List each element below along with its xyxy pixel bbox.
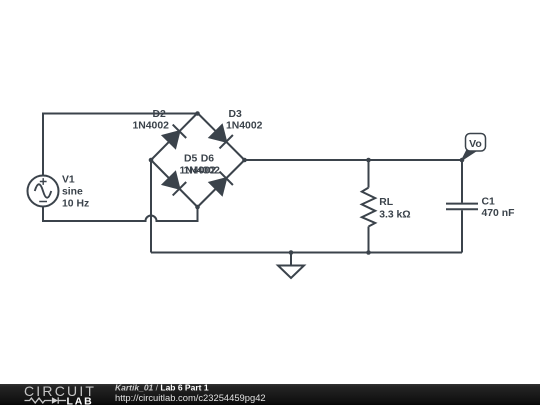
svg-text:D5: D5 <box>184 154 198 165</box>
label V1 <box>62 175 89 210</box>
diode D3 (bridge top-right arm) <box>198 113 245 160</box>
wire output rail from bridge right node to Vo node <box>245 159 463 161</box>
wire Vo node down through C1 to ground rail <box>461 160 463 253</box>
wire top rail from V1 up and right to bridge top node <box>43 114 198 176</box>
label D5 and D6 <box>180 154 221 177</box>
junction node: bridge bottom <box>195 205 200 210</box>
svg-text:1N4002: 1N4002 <box>133 121 170 132</box>
junction node: bridge right <box>242 158 247 163</box>
wire bottom ground rail <box>151 252 462 254</box>
label D2 <box>133 109 170 132</box>
svg-text:D6: D6 <box>201 154 215 165</box>
label RL <box>379 197 410 220</box>
svg-text:1N4002: 1N4002 <box>226 121 263 132</box>
svg-text:D3: D3 <box>229 109 243 120</box>
junction node: Vo <box>460 158 465 163</box>
diode D6 (bridge bottom-right arm) <box>198 160 245 207</box>
svg-text:V1: V1 <box>62 175 75 186</box>
svg-text:C1: C1 <box>482 197 496 208</box>
diode D5 (bridge bottom-left arm) <box>151 160 198 207</box>
junction node: bridge top <box>195 111 200 116</box>
svg-text:10 Hz: 10 Hz <box>62 198 89 209</box>
svg-text:http://circuitlab.com/c2325445: http://circuitlab.com/c23254459pg42 <box>115 392 266 403</box>
capacitor C1 plates <box>446 204 478 210</box>
Vo net flag <box>462 134 486 161</box>
footer bar <box>0 384 540 405</box>
wire V1 bottom rail with hop over left branch, to bridge bottom node <box>43 207 198 222</box>
svg-text:D2: D2 <box>153 109 167 120</box>
diode D2 (bridge top-left arm) <box>151 113 198 160</box>
svg-text:Vo: Vo <box>469 138 482 150</box>
wire RL branch leads <box>368 160 370 253</box>
svg-text:LAB: LAB <box>67 396 94 405</box>
wire bridge left node down to ground rail <box>150 160 152 253</box>
ground symbol <box>278 253 304 279</box>
svg-text:RL: RL <box>379 197 394 208</box>
junction node: bridge left <box>149 158 154 163</box>
svg-text:470 nF: 470 nF <box>482 208 515 219</box>
junction node: RL bottom <box>366 250 371 255</box>
svg-text:1N4002: 1N4002 <box>184 165 221 176</box>
svg-text:3.3 kΩ: 3.3 kΩ <box>379 209 410 220</box>
label C1 <box>482 197 515 220</box>
voltage source V1 <box>28 176 59 207</box>
CircuitLab logo schematic squiggle with resistor and diode <box>25 397 67 403</box>
junction node: ground <box>289 250 294 255</box>
resistor RL zigzag <box>362 188 375 227</box>
junction node: RL top <box>366 158 371 163</box>
svg-text:sine: sine <box>62 186 83 197</box>
label D3 <box>226 109 263 132</box>
